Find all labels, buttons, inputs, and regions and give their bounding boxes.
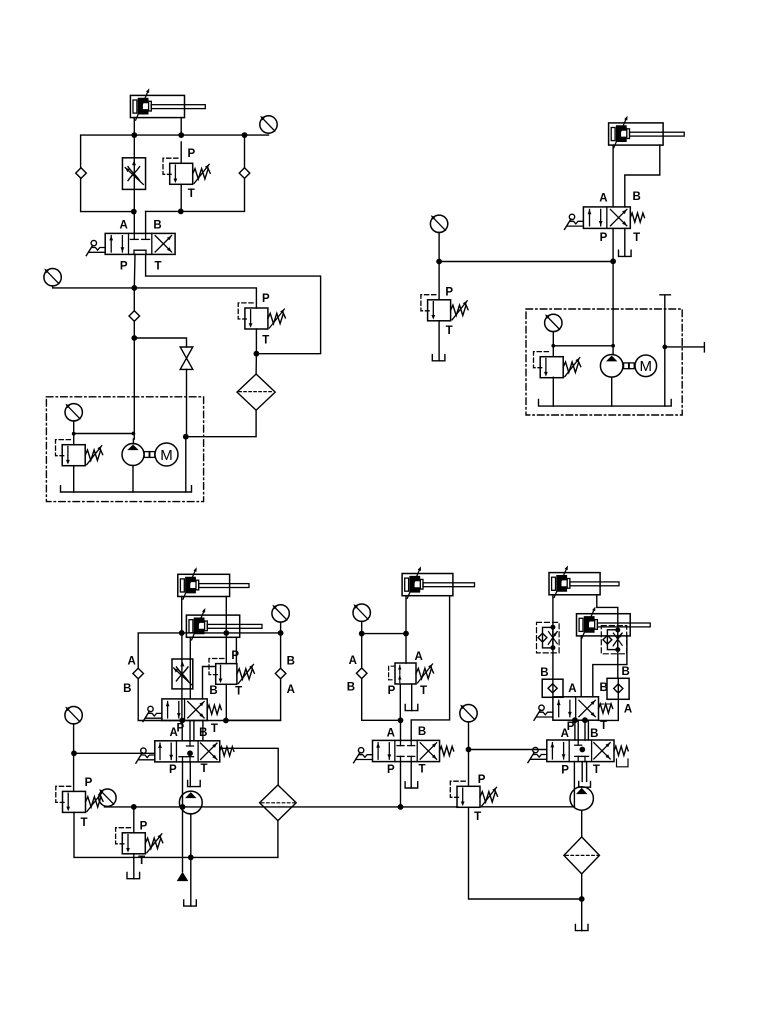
svg-text:A: A xyxy=(349,655,357,667)
junction dot G7 xyxy=(71,750,77,756)
wire CYL5 rod down xyxy=(411,596,449,741)
directional valve DV2 4/2 lever with spring return xyxy=(583,207,630,229)
wire DV7 P down xyxy=(573,762,575,807)
DV2 lever xyxy=(565,214,584,229)
CB1 pilot dashes xyxy=(389,666,395,680)
junction dots on bus xyxy=(131,804,137,810)
wire G4 stem and cross line xyxy=(439,233,613,300)
junction dot cap line c4 xyxy=(403,631,409,637)
wire CB-R down and over xyxy=(599,678,619,720)
wire DV5 P to bus xyxy=(400,762,402,807)
wire RV2 to junction xyxy=(255,329,257,354)
FM2 junction dots xyxy=(615,628,620,633)
check valve right branch c3 xyxy=(275,668,286,679)
DV5 return spring xyxy=(440,746,454,755)
junction dot G5 xyxy=(551,344,555,348)
svg-text:P: P xyxy=(85,777,93,789)
oil level indicator xyxy=(660,295,670,406)
junction dot G4 xyxy=(436,259,442,265)
svg-text:P: P xyxy=(187,148,195,160)
tank line PU2 xyxy=(539,399,672,406)
directional valve DV5 4/3 lever with spring xyxy=(373,740,440,761)
svg-text:B: B xyxy=(632,191,640,203)
svg-text:T: T xyxy=(138,855,145,867)
svg-text:P: P xyxy=(387,764,395,776)
junction dot T/filter xyxy=(254,351,260,357)
svg-text:B: B xyxy=(347,682,355,694)
DV3 right envelope crossed arrows xyxy=(188,702,204,718)
pressure gauge G5 xyxy=(545,314,562,331)
DV1 right envelope crossed arrows xyxy=(155,236,171,252)
wire RV4 to tank xyxy=(438,321,440,361)
DV6 return spring xyxy=(599,704,613,713)
wire filter top xyxy=(255,354,257,374)
wire CYL6 rod route xyxy=(597,595,618,679)
filter F3 xyxy=(564,837,600,874)
FM1 bypass body xyxy=(543,627,553,648)
power unit enclosure PU1 xyxy=(46,397,203,502)
wire RV1 tails xyxy=(180,142,182,211)
FM1 throttle xyxy=(549,632,558,644)
svg-text:B: B xyxy=(418,726,426,738)
junction dot P node c4 xyxy=(398,717,404,723)
wire cylinder ports to A/B header (node line y135) xyxy=(81,118,269,168)
relief valve RV3 xyxy=(56,440,103,466)
junction dot return line xyxy=(188,855,194,861)
wire DV5 T to tank xyxy=(410,762,412,788)
svg-text:B: B xyxy=(590,728,598,740)
DV1 lever xyxy=(86,240,105,255)
main bus line left part xyxy=(105,806,458,808)
tank symbol T9 xyxy=(579,781,591,787)
DV6 lever xyxy=(534,705,553,720)
wire T to tank c3 xyxy=(189,762,191,787)
junction dots A/B line xyxy=(131,209,137,215)
junction dot pump line xyxy=(131,335,137,341)
tank symbol T5 xyxy=(127,873,140,879)
svg-text:T: T xyxy=(211,723,218,735)
junction dots y720.5 xyxy=(179,718,185,724)
wire P line down xyxy=(133,288,135,439)
DV6 spring pilot dash xyxy=(600,703,611,705)
wire CYL4 rod port down xyxy=(235,637,237,663)
DV7 spring drain bracket xyxy=(617,759,629,767)
wire pump vertical xyxy=(132,439,134,492)
svg-text:P: P xyxy=(176,722,184,734)
junction dot G9 xyxy=(359,631,365,637)
CB1 internal arrows xyxy=(399,665,401,674)
directional valve DV3 4/2 lever with spring xyxy=(162,699,207,721)
junction dots on node line y135 xyxy=(131,132,137,138)
svg-text:A: A xyxy=(414,651,422,663)
check valve left branch xyxy=(76,168,87,179)
wire valve B port xyxy=(145,211,147,233)
node wire y720.5 xyxy=(162,720,281,722)
wire T route xyxy=(146,254,321,354)
wire RV3 to tank line xyxy=(73,466,75,492)
wire left branch lower xyxy=(81,178,135,211)
DV3 left envelope arrows xyxy=(167,702,169,718)
inline check valve small xyxy=(129,311,140,322)
wire G9 stem xyxy=(361,621,363,668)
DV5 middle stubs xyxy=(400,740,402,745)
wire G3 stem xyxy=(73,421,75,445)
DV2 right envelope crossed arrows xyxy=(610,209,626,225)
junction dot G10 xyxy=(466,747,472,753)
wire RV5 to tank line xyxy=(552,377,554,406)
directional valve DV1 4/3 lever operated xyxy=(105,233,175,254)
flow control module FM2 dashed box xyxy=(601,626,626,654)
junction dot filler line xyxy=(662,345,667,350)
check valve right branch xyxy=(239,168,250,179)
wire DV2 T to tank xyxy=(624,228,626,256)
junction dot P/gauge line xyxy=(610,258,616,264)
DV1 left envelope arrows xyxy=(110,236,112,252)
wire RV8 to tank xyxy=(133,854,135,879)
DV5 right envelope crossed arrows xyxy=(420,743,436,759)
circuit 1 hydraulic cylinder CYL1 with adjustable cushion xyxy=(130,88,205,120)
junction dot return xyxy=(183,434,189,440)
wire P node xyxy=(53,254,257,308)
circuit 5 hydraulic cylinder CYL6 upper xyxy=(549,566,619,598)
svg-text:T: T xyxy=(418,764,425,776)
pump P2 xyxy=(600,355,623,378)
tank symbol T3 xyxy=(432,355,445,361)
wire pump suction xyxy=(190,814,192,906)
pump-motor coupling xyxy=(144,452,149,458)
wire DV7 T pair to tank xyxy=(582,762,586,782)
directional valve DV7 4/3 lever with spring xyxy=(547,740,614,762)
DV3 return spring xyxy=(207,705,221,714)
check valve left branch c4 xyxy=(356,668,367,679)
wire G5 stem xyxy=(552,332,554,357)
wire G10 to DV7 xyxy=(469,749,547,751)
DV6 left envelope arrows xyxy=(558,700,560,716)
wire CB1 P down xyxy=(399,684,401,720)
pressure gauge G9 xyxy=(353,604,370,621)
svg-text:T: T xyxy=(593,764,600,776)
svg-text:T: T xyxy=(420,685,427,697)
circuit 2 hydraulic cylinder CYL2 xyxy=(609,116,685,148)
DV4 middle stubs xyxy=(189,741,191,746)
wire CYL5 cap down xyxy=(405,596,407,663)
pressure gauge G10 xyxy=(460,705,477,722)
pump P4 xyxy=(570,787,593,810)
svg-text:M: M xyxy=(640,358,653,375)
pressure gauge G6 xyxy=(272,605,289,622)
svg-text:P: P xyxy=(478,774,486,786)
tank symbol T6 xyxy=(184,900,197,906)
relief valve RV6 (port relief) xyxy=(209,659,254,685)
filler breather stub xyxy=(665,343,705,352)
svg-text:A: A xyxy=(128,656,136,668)
tank symbol T4 xyxy=(188,780,201,786)
wire G7 to DV4 lever side xyxy=(74,752,155,754)
wire right branch c3 lower xyxy=(226,679,281,721)
DV2 left envelope arrows xyxy=(589,209,591,225)
directional valve DV4 4/3 lever with spring xyxy=(155,741,220,762)
svg-text:T: T xyxy=(80,817,87,829)
wire bus to RV8 xyxy=(133,807,135,833)
circuit 4 hydraulic cylinder CYL5 xyxy=(402,566,474,598)
svg-text:T: T xyxy=(446,325,453,337)
wire interconnect pairs c5 xyxy=(575,720,589,740)
wire pump P4 down to filter xyxy=(581,810,583,837)
wire shutoff to power unit xyxy=(186,369,188,436)
DV2 return spring xyxy=(630,213,644,222)
tank symbol T2 xyxy=(619,250,632,256)
wire A port DV5 xyxy=(400,720,402,740)
junction dots DV6 bottom xyxy=(572,717,578,723)
junction dot P node xyxy=(131,285,137,291)
svg-text:T: T xyxy=(633,232,640,244)
wire CYL7 rod route xyxy=(593,636,627,697)
wire filter F2 bottom xyxy=(277,821,279,858)
CB-L check diamond xyxy=(548,684,557,693)
DV7 middle stubs xyxy=(577,740,579,745)
filter F1 xyxy=(237,374,275,410)
relief valve RV1 xyxy=(163,158,210,184)
wire G6 stem xyxy=(280,622,282,633)
check valve left branch c3 xyxy=(133,668,144,679)
FM2 throttle xyxy=(613,633,622,645)
svg-text:T: T xyxy=(262,335,269,347)
wire right return inside PU1 xyxy=(185,437,187,492)
flow control valve FC1 xyxy=(122,158,145,190)
DV7 lever xyxy=(528,747,547,762)
svg-text:T: T xyxy=(154,261,161,273)
shutoff valve SV1 xyxy=(180,347,193,369)
svg-text:B: B xyxy=(153,219,161,231)
electric motor M1 xyxy=(155,443,178,466)
relief valve RV9 xyxy=(450,781,497,807)
CB-R check diamond xyxy=(614,684,623,693)
svg-text:P: P xyxy=(231,650,239,662)
pump P3 xyxy=(179,791,202,814)
wire RV6 side port B xyxy=(203,667,216,699)
DV4 lever xyxy=(136,748,155,763)
check valve block CB-R xyxy=(607,678,629,699)
wire right branch c3 upper xyxy=(280,633,282,668)
filter F2 xyxy=(260,785,297,821)
wire DV4 side to filter xyxy=(221,748,278,784)
DV5 left envelope arrows xyxy=(377,743,379,759)
wire CYL6 cap column xyxy=(552,595,554,697)
circuit 3 hydraulic cylinder CYL3 upper xyxy=(178,567,249,599)
svg-text:T: T xyxy=(200,763,207,775)
svg-text:B: B xyxy=(209,685,217,697)
DV6 right envelope crossed arrows xyxy=(579,700,595,716)
svg-text:P: P xyxy=(445,287,453,299)
electric motor M2 xyxy=(635,355,657,377)
wire G7 stem xyxy=(73,724,75,792)
wire CYL2 cap to valve A xyxy=(612,145,614,207)
relief valve RV2 xyxy=(238,303,285,329)
wire gauge to pump line xyxy=(74,433,134,435)
DV7 return spring xyxy=(614,746,628,755)
wire left branch c3 lower xyxy=(138,679,162,721)
wire CYL2 rod to valve B xyxy=(625,145,660,207)
svg-text:B: B xyxy=(123,683,131,695)
tank line PU1 xyxy=(61,486,192,492)
wire branch to shutoff xyxy=(134,338,186,347)
wire FC2 through line to valve xyxy=(181,633,183,721)
svg-text:A: A xyxy=(599,193,607,205)
wire pump P2 vertical xyxy=(611,377,613,406)
svg-text:M: M xyxy=(160,447,173,464)
svg-text:A: A xyxy=(561,728,569,740)
svg-text:A: A xyxy=(287,684,295,696)
wire valve A port / FC through line xyxy=(133,135,135,233)
svg-text:A: A xyxy=(568,683,576,695)
pump P1 xyxy=(122,444,144,466)
svg-text:P: P xyxy=(262,293,270,305)
wire interconnect pair xyxy=(182,721,203,741)
junction dot pump top line xyxy=(132,432,136,436)
tank symbol T8 xyxy=(405,782,418,788)
relief valve RV5 xyxy=(534,352,581,378)
wire G5 to P line xyxy=(553,345,613,347)
check valve block CB-L xyxy=(542,679,563,697)
wire RV6 T down xyxy=(225,684,227,720)
wire P column c3 xyxy=(182,762,184,872)
svg-text:A: A xyxy=(120,219,128,231)
wire CB1 T to tank xyxy=(411,684,413,711)
svg-text:T: T xyxy=(235,686,242,698)
wire left branch c4 lower xyxy=(362,679,401,721)
suction strainer triangle xyxy=(177,872,189,881)
wire right branch lower xyxy=(146,178,245,211)
svg-text:B: B xyxy=(540,667,548,679)
svg-text:T: T xyxy=(474,811,481,823)
junction dot return c5 xyxy=(579,896,585,902)
FM2 check valve xyxy=(603,635,612,644)
flow control valve FC2 xyxy=(172,659,193,689)
relief valve RV8 xyxy=(116,828,163,854)
circuit 5 hydraulic cylinder CYL7 lower xyxy=(577,607,651,639)
counterbalance valve CB1 xyxy=(395,663,416,684)
DV4 return spring xyxy=(220,747,234,756)
wire CYL3 ports down xyxy=(182,597,227,664)
svg-text:T: T xyxy=(188,188,195,200)
wire filter bottom to power unit xyxy=(186,410,256,437)
svg-text:P: P xyxy=(388,685,396,697)
wire G9 cross xyxy=(362,633,406,635)
wire RV9 to return xyxy=(469,807,582,899)
svg-text:A: A xyxy=(624,704,632,716)
tank symbol T7 xyxy=(405,704,418,710)
DV5 lever xyxy=(354,748,373,763)
DV7 left envelope arrows xyxy=(551,743,553,759)
svg-text:P: P xyxy=(120,261,128,273)
svg-text:P: P xyxy=(169,764,177,776)
FM1 check valve xyxy=(538,633,547,642)
svg-text:P: P xyxy=(561,765,569,777)
svg-text:P: P xyxy=(140,821,148,833)
svg-text:A: A xyxy=(387,727,395,739)
wire RV7 to return line xyxy=(74,812,278,857)
wire CYL7 cap down xyxy=(580,636,582,697)
DV4 left envelope arrows xyxy=(159,743,161,759)
DV4 right envelope crossed arrows xyxy=(201,743,217,759)
svg-text:P: P xyxy=(600,232,608,244)
junction dot inside DV7 xyxy=(579,747,585,753)
FM1 junction dots xyxy=(550,625,555,630)
relief valve RV7 xyxy=(56,786,103,812)
directional valve DV6 4/2 lever with spring xyxy=(553,697,599,720)
junction dot P inside PU2 xyxy=(611,344,615,348)
pressure gauge G1 xyxy=(260,116,277,133)
tank symbol T10 xyxy=(575,924,588,930)
pressure gauge G3 xyxy=(65,404,82,421)
junction dot inside DV4 xyxy=(187,750,193,756)
flow control module FM1 dashed box xyxy=(537,622,560,653)
pressure gauge G7 xyxy=(65,707,82,724)
wire CYL4 cap port down xyxy=(189,637,191,699)
relief valve RV4 xyxy=(421,295,468,321)
svg-text:B: B xyxy=(621,666,629,678)
DV1 middle envelope closed stubs xyxy=(133,233,135,239)
CB1 spring xyxy=(416,668,433,678)
wire P main vertical xyxy=(612,228,614,354)
pressure gauge G2 xyxy=(44,269,61,286)
wire F3 to tank xyxy=(581,874,583,931)
DV3 lever xyxy=(143,706,162,721)
FM2 bypass body xyxy=(607,630,617,650)
circuit 3 hydraulic cylinder CYL4 lower xyxy=(186,608,262,640)
wire G10 stem xyxy=(468,722,470,786)
svg-text:T: T xyxy=(600,720,607,732)
pressure gauge G8 xyxy=(99,789,116,806)
pressure gauge G4 xyxy=(430,215,447,232)
power unit enclosure PU2 xyxy=(526,309,682,415)
svg-text:B: B xyxy=(287,656,295,668)
main bus right part xyxy=(482,806,575,808)
junction dot G3 xyxy=(72,432,76,436)
DV7 right envelope crossed arrows xyxy=(594,743,610,759)
pump-motor coupling 2 xyxy=(624,363,629,369)
node line y633 bottom-left xyxy=(138,633,280,668)
junction dots node y633 xyxy=(179,630,185,636)
